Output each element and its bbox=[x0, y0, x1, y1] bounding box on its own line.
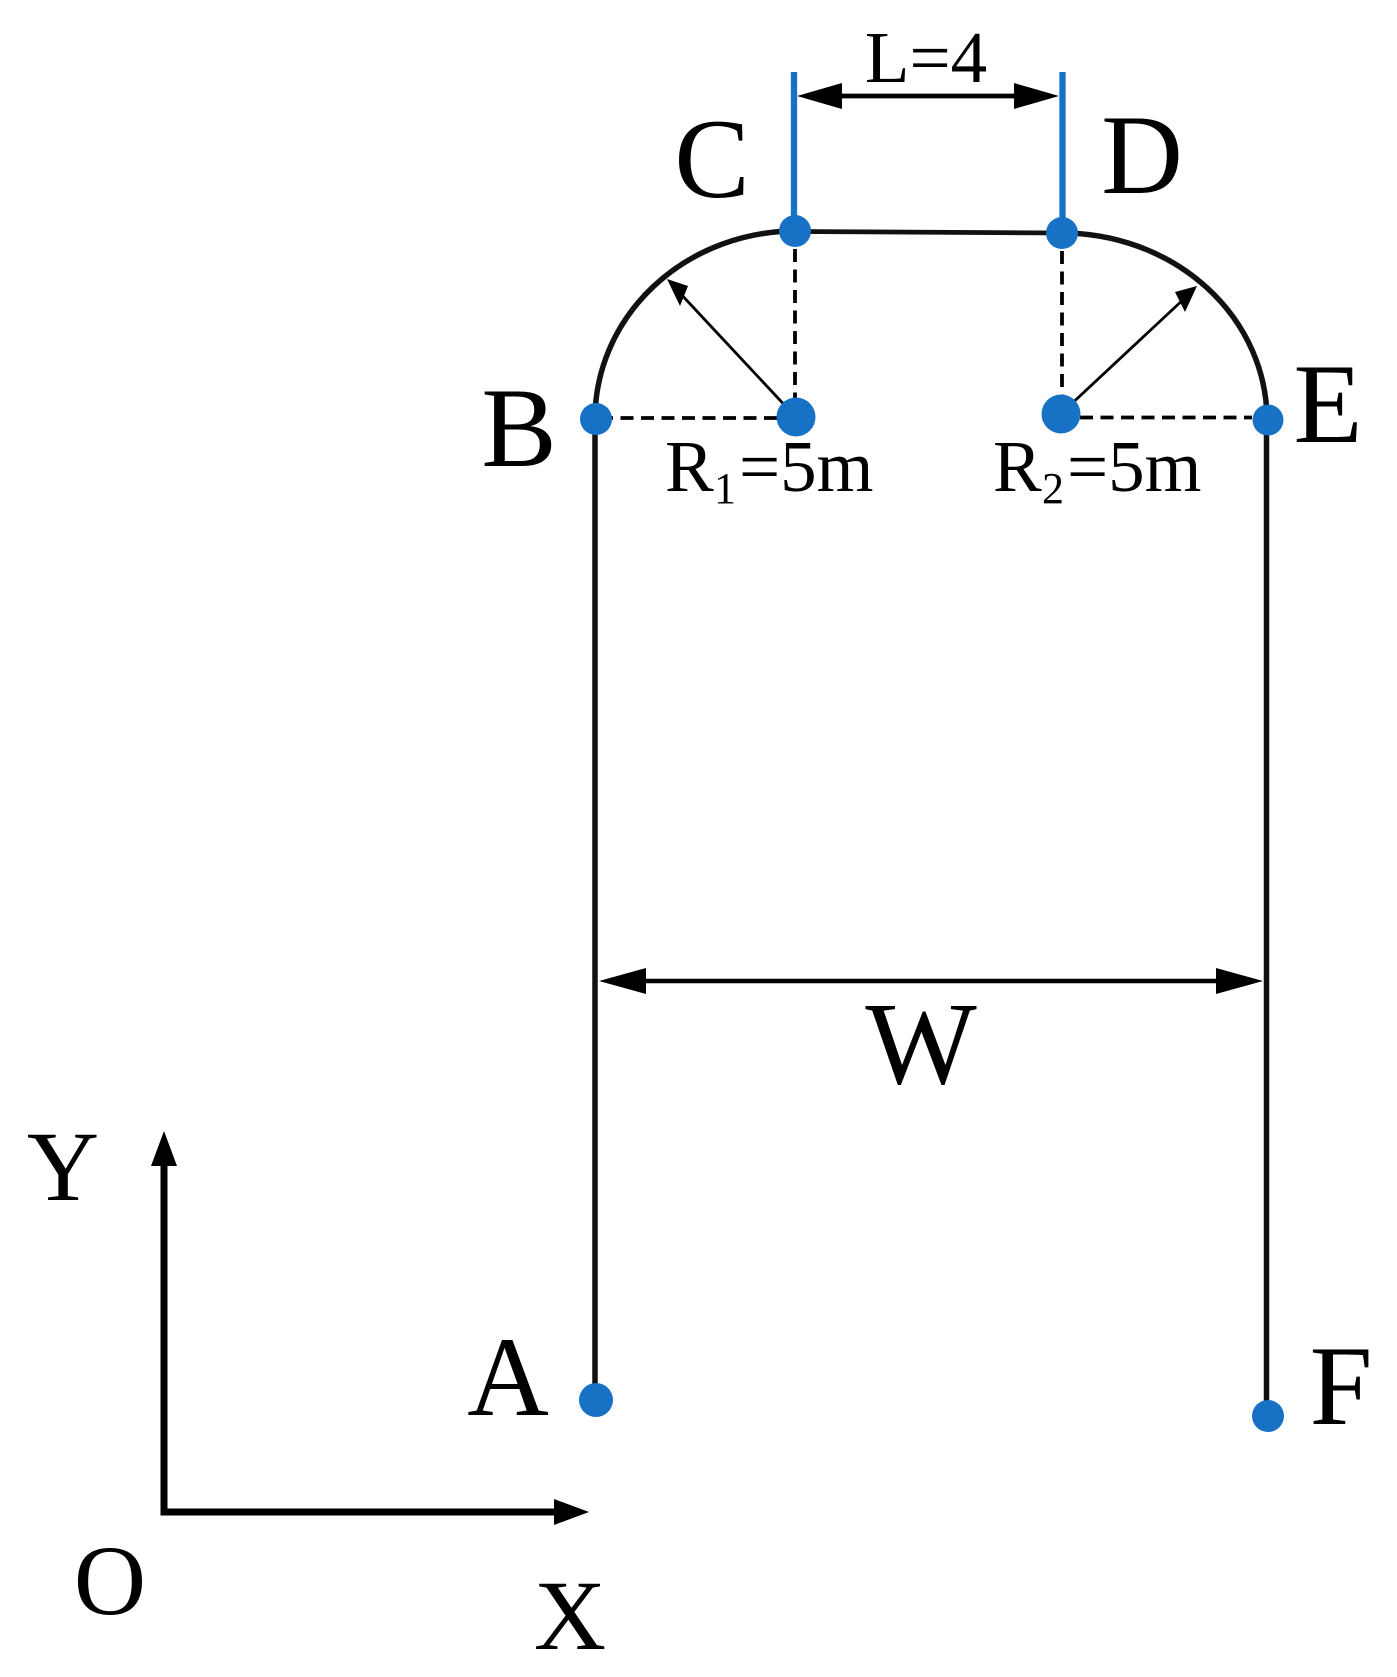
node A bbox=[579, 1383, 613, 1417]
svg-text:C: C bbox=[674, 97, 749, 222]
svg-text:F: F bbox=[1310, 1324, 1373, 1449]
node D bbox=[1046, 217, 1078, 249]
svg-text:R: R bbox=[993, 426, 1042, 507]
dashed line B to centre O1 bbox=[600, 416, 792, 420]
svg-text:2: 2 bbox=[1042, 464, 1064, 513]
radius arrow R2 bbox=[1066, 286, 1197, 409]
dashed line C to centre O1 bbox=[793, 249, 797, 400]
svg-text:1: 1 bbox=[714, 464, 736, 513]
node F bbox=[1252, 1400, 1284, 1432]
node C bbox=[779, 215, 811, 247]
arc B to C radius R1 bbox=[595, 231, 796, 419]
svg-text:=5m: =5m bbox=[739, 426, 873, 507]
svg-text:E: E bbox=[1293, 342, 1362, 467]
dashed line D to centre O2 bbox=[1060, 251, 1064, 396]
radius arrow R1 bbox=[667, 279, 791, 412]
svg-text:A: A bbox=[467, 1315, 549, 1440]
svg-text:B: B bbox=[481, 366, 556, 491]
svg-text:R: R bbox=[665, 426, 714, 507]
svg-text:O: O bbox=[74, 1525, 146, 1636]
wire top CD bbox=[796, 232, 1062, 234]
svg-text:X: X bbox=[534, 1560, 606, 1671]
svg-text:D: D bbox=[1101, 93, 1183, 218]
wire right vertical EF bbox=[1264, 420, 1270, 1414]
svg-text:Y: Y bbox=[27, 1111, 99, 1222]
blue guide line above C bbox=[791, 72, 797, 231]
X axis bbox=[161, 1509, 561, 1516]
svg-text:=5m: =5m bbox=[1067, 426, 1201, 507]
Y axis bbox=[161, 1160, 168, 1515]
svg-text:W: W bbox=[865, 978, 977, 1109]
centre O2 bbox=[1042, 395, 1081, 434]
centre O1 bbox=[777, 398, 816, 437]
dashed line centre O2 to E bbox=[1080, 416, 1252, 420]
dimension arrow W bbox=[599, 968, 1263, 994]
arc D to E radius R2 bbox=[1062, 233, 1267, 420]
svg-text:L=4: L=4 bbox=[865, 17, 987, 98]
blue guide line above D bbox=[1059, 72, 1065, 233]
dimension arrow L bbox=[797, 83, 1059, 109]
wire left vertical AB bbox=[592, 419, 598, 1399]
node E bbox=[1253, 405, 1284, 436]
node B bbox=[580, 403, 612, 435]
